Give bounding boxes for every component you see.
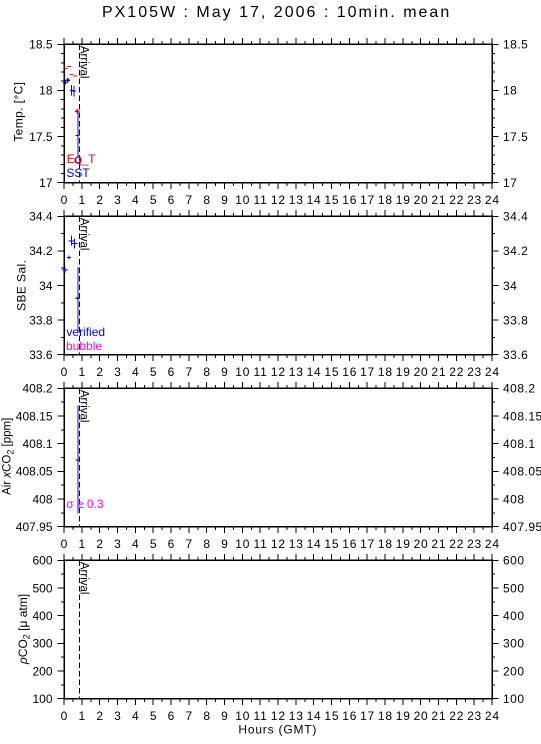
svg-text:Hours (GMT): Hours (GMT) bbox=[238, 723, 317, 737]
panel4-pco2 x ticks bottom bbox=[64, 699, 492, 706]
svg-text:23: 23 bbox=[467, 709, 482, 723]
svg-text:23: 23 bbox=[467, 193, 482, 207]
svg-text:18: 18 bbox=[378, 193, 393, 207]
svg-text:SST: SST bbox=[66, 166, 90, 180]
svg-text:6: 6 bbox=[168, 709, 175, 723]
panel2-sal y ticks left bbox=[58, 216, 65, 354]
svg-text:12: 12 bbox=[271, 709, 286, 723]
svg-text:20: 20 bbox=[414, 537, 429, 551]
panel3-xco2 y labels right bbox=[503, 382, 541, 534]
svg-text:8: 8 bbox=[203, 193, 210, 207]
svg-text:18: 18 bbox=[378, 365, 393, 379]
svg-text:24: 24 bbox=[485, 193, 500, 207]
p2 blue small plus bbox=[67, 256, 71, 260]
panel2-sal arrival dashed line bbox=[79, 216, 81, 354]
p1 blue SST plus markers small bbox=[63, 78, 70, 85]
svg-text:17: 17 bbox=[503, 176, 517, 190]
svg-text:Arrival: Arrival bbox=[78, 218, 90, 251]
svg-text:300: 300 bbox=[32, 637, 52, 651]
panel2-sal x ticks bottom bbox=[64, 355, 492, 362]
svg-text:100: 100 bbox=[32, 692, 52, 706]
panel1-temp y labels right bbox=[503, 38, 528, 190]
svg-text:15: 15 bbox=[324, 193, 339, 207]
panel4-pco2 frame bbox=[64, 560, 492, 698]
svg-text:18.5: 18.5 bbox=[29, 38, 53, 52]
svg-text:Arrival: Arrival bbox=[78, 46, 90, 79]
svg-text:22: 22 bbox=[449, 709, 464, 723]
panel1-temp x ticks top bbox=[64, 38, 492, 45]
svg-text:4: 4 bbox=[132, 709, 139, 723]
panel4-pco2 y labels right bbox=[503, 554, 525, 706]
svg-text:23: 23 bbox=[467, 537, 482, 551]
svg-text:20: 20 bbox=[414, 193, 429, 207]
panel3-xco2 x ticks top bbox=[64, 382, 492, 389]
svg-text:3: 3 bbox=[114, 365, 121, 379]
svg-text:19: 19 bbox=[396, 193, 411, 207]
svg-text:21: 21 bbox=[431, 709, 446, 723]
svg-text:σ ≥ 0.3: σ ≥ 0.3 bbox=[66, 497, 104, 511]
p1 blue circle marker bbox=[75, 157, 81, 163]
svg-text:2: 2 bbox=[96, 709, 103, 723]
svg-text:2: 2 bbox=[96, 365, 103, 379]
p1 blue plus pair H bbox=[70, 85, 76, 96]
svg-text:10: 10 bbox=[235, 193, 250, 207]
svg-text:9: 9 bbox=[221, 537, 228, 551]
panel3-xco2 y ticks left bbox=[58, 388, 65, 526]
svg-text:3: 3 bbox=[114, 193, 121, 207]
panel4-pco2 x labels bbox=[61, 709, 500, 723]
svg-text:17: 17 bbox=[360, 193, 375, 207]
panel4-pco2 arrival dashed line bbox=[79, 560, 81, 698]
svg-text:3: 3 bbox=[114, 709, 121, 723]
svg-text:10: 10 bbox=[235, 365, 250, 379]
svg-text:34.4: 34.4 bbox=[29, 210, 53, 224]
svg-text:300: 300 bbox=[503, 637, 525, 651]
svg-text:14: 14 bbox=[307, 193, 322, 207]
svg-text:34: 34 bbox=[503, 279, 517, 293]
svg-text:7: 7 bbox=[185, 709, 192, 723]
svg-text:17.5: 17.5 bbox=[29, 130, 53, 144]
svg-text:22: 22 bbox=[449, 537, 464, 551]
svg-text:Eq_T: Eq_T bbox=[67, 152, 96, 166]
svg-text:14: 14 bbox=[307, 709, 322, 723]
svg-text:13: 13 bbox=[289, 709, 304, 723]
svg-text:16: 16 bbox=[342, 709, 357, 723]
svg-text:24: 24 bbox=[485, 537, 500, 551]
panel1-temp frame bbox=[64, 44, 492, 182]
panel4-pco2 y ticks left bbox=[58, 560, 65, 698]
svg-text:17: 17 bbox=[360, 365, 375, 379]
svg-text:400: 400 bbox=[32, 609, 52, 623]
svg-text:8: 8 bbox=[203, 365, 210, 379]
svg-text:408.1: 408.1 bbox=[503, 437, 536, 451]
svg-text:20: 20 bbox=[414, 709, 429, 723]
svg-text:408.1: 408.1 bbox=[22, 437, 52, 451]
svg-text:11: 11 bbox=[254, 709, 268, 723]
p1 red plus at line top bbox=[75, 109, 80, 113]
svg-text:21: 21 bbox=[431, 193, 446, 207]
svg-text:11: 11 bbox=[254, 193, 268, 207]
svg-text:11: 11 bbox=[254, 365, 268, 379]
svg-text:13: 13 bbox=[289, 365, 304, 379]
svg-text:408: 408 bbox=[503, 492, 525, 506]
svg-text:18: 18 bbox=[39, 84, 53, 98]
svg-text:6: 6 bbox=[168, 193, 175, 207]
panel2-sal frame bbox=[64, 216, 492, 354]
svg-text:12: 12 bbox=[271, 537, 286, 551]
panel2-sal x ticks top bbox=[64, 210, 492, 217]
svg-text:10: 10 bbox=[235, 537, 250, 551]
panel3-xco2 arrival dashed line bbox=[79, 388, 81, 526]
svg-text:408.05: 408.05 bbox=[503, 465, 541, 479]
svg-text:7: 7 bbox=[185, 365, 192, 379]
svg-text:4: 4 bbox=[132, 537, 139, 551]
svg-text:14: 14 bbox=[307, 537, 322, 551]
svg-text:33.8: 33.8 bbox=[503, 313, 528, 327]
svg-text:407.95: 407.95 bbox=[16, 520, 53, 534]
svg-text:2: 2 bbox=[96, 193, 103, 207]
svg-text:34.4: 34.4 bbox=[503, 210, 528, 224]
svg-text:bubble: bubble bbox=[66, 339, 102, 353]
svg-text:5: 5 bbox=[150, 193, 157, 207]
svg-text:18.5: 18.5 bbox=[503, 38, 528, 52]
panel3-xco2 y ticks right bbox=[492, 388, 499, 526]
svg-text:17.5: 17.5 bbox=[503, 130, 528, 144]
p2 blue vertical range line bbox=[75, 267, 79, 331]
panel3-xco2 x ticks bottom bbox=[64, 527, 492, 534]
svg-text:18: 18 bbox=[378, 709, 393, 723]
svg-text:33.8: 33.8 bbox=[29, 313, 53, 327]
svg-text:100: 100 bbox=[503, 692, 525, 706]
svg-text:1: 1 bbox=[78, 537, 85, 551]
p1 red EqT trace segment a bbox=[64, 66, 71, 68]
panel1-temp y ticks left bbox=[58, 44, 65, 182]
svg-text:24: 24 bbox=[485, 709, 500, 723]
svg-text:18: 18 bbox=[503, 84, 517, 98]
svg-text:15: 15 bbox=[324, 365, 339, 379]
svg-text:0: 0 bbox=[61, 537, 68, 551]
panel2-sal y labels right bbox=[503, 210, 528, 362]
p1 blue vertical range line bbox=[75, 111, 79, 157]
svg-text:17: 17 bbox=[360, 709, 375, 723]
svg-text:3: 3 bbox=[114, 537, 121, 551]
svg-text:6: 6 bbox=[168, 365, 175, 379]
svg-text:9: 9 bbox=[221, 365, 228, 379]
svg-text:12: 12 bbox=[271, 193, 286, 207]
p3 blue vertical range line bbox=[75, 405, 79, 513]
svg-text:12: 12 bbox=[271, 365, 286, 379]
svg-text:34.2: 34.2 bbox=[503, 244, 528, 258]
svg-text:16: 16 bbox=[342, 365, 357, 379]
svg-text:1: 1 bbox=[78, 365, 85, 379]
svg-text:200: 200 bbox=[32, 664, 52, 678]
svg-text:1: 1 bbox=[78, 193, 85, 207]
svg-text:34: 34 bbox=[39, 279, 53, 293]
svg-text:600: 600 bbox=[503, 554, 525, 568]
svg-text:13: 13 bbox=[289, 537, 304, 551]
svg-text:4: 4 bbox=[132, 365, 139, 379]
panel4-pco2 x ticks top bbox=[64, 554, 492, 561]
svg-text:22: 22 bbox=[449, 193, 464, 207]
svg-text:23: 23 bbox=[467, 365, 482, 379]
svg-text:5: 5 bbox=[150, 365, 157, 379]
svg-text:18: 18 bbox=[378, 537, 393, 551]
svg-text:14: 14 bbox=[307, 365, 322, 379]
svg-text:Arrival: Arrival bbox=[78, 562, 90, 595]
svg-text:5: 5 bbox=[150, 709, 157, 723]
panel4-pco2 y labels left bbox=[32, 554, 52, 706]
panel2-sal y ticks right bbox=[492, 216, 499, 354]
svg-text:verified: verified bbox=[66, 325, 105, 339]
svg-text:16: 16 bbox=[342, 537, 357, 551]
svg-text:13: 13 bbox=[289, 193, 304, 207]
svg-text:22: 22 bbox=[449, 365, 464, 379]
svg-text:1: 1 bbox=[78, 709, 85, 723]
svg-text:19: 19 bbox=[396, 365, 411, 379]
svg-text:34.2: 34.2 bbox=[29, 244, 53, 258]
svg-text:7: 7 bbox=[185, 537, 192, 551]
svg-text:16: 16 bbox=[342, 193, 357, 207]
svg-text:33.6: 33.6 bbox=[503, 348, 528, 362]
panel3-xco2 x labels bbox=[61, 537, 500, 551]
svg-text:Temp. [°C]: Temp. [°C] bbox=[12, 82, 26, 142]
svg-text:Air xCO2 [ppm]: Air xCO2 [ppm] bbox=[2, 418, 16, 495]
panel4-pco2 y ticks right bbox=[492, 560, 499, 698]
svg-text:500: 500 bbox=[32, 581, 52, 595]
svg-text:408.15: 408.15 bbox=[503, 409, 541, 423]
svg-text:20: 20 bbox=[414, 365, 429, 379]
svg-text:7: 7 bbox=[185, 193, 192, 207]
svg-text:11: 11 bbox=[254, 537, 268, 551]
svg-text:400: 400 bbox=[503, 609, 525, 623]
svg-text:408.2: 408.2 bbox=[503, 382, 536, 396]
svg-text:0: 0 bbox=[61, 365, 68, 379]
svg-text:PX105W : May 17, 2006 : 10min.: PX105W : May 17, 2006 : 10min. mean bbox=[102, 4, 451, 21]
svg-text:500: 500 bbox=[503, 581, 525, 595]
svg-text:2: 2 bbox=[96, 537, 103, 551]
panel2-sal x labels bbox=[61, 365, 500, 379]
panel1-temp arrival dashed line bbox=[79, 44, 81, 182]
svg-text:407.95: 407.95 bbox=[503, 520, 541, 534]
svg-text:15: 15 bbox=[324, 709, 339, 723]
svg-text:15: 15 bbox=[324, 537, 339, 551]
svg-text:17: 17 bbox=[360, 537, 375, 551]
p1 red EqT trace segment b bbox=[70, 74, 77, 76]
svg-text:0: 0 bbox=[61, 193, 68, 207]
svg-text:4: 4 bbox=[132, 193, 139, 207]
panel1-temp x labels bbox=[61, 193, 500, 207]
svg-text:0: 0 bbox=[61, 709, 68, 723]
p2 blue plus at axis bbox=[62, 267, 68, 273]
svg-text:21: 21 bbox=[431, 365, 446, 379]
svg-text:200: 200 bbox=[503, 664, 525, 678]
svg-text:33.6: 33.6 bbox=[29, 348, 53, 362]
svg-text:408: 408 bbox=[32, 492, 52, 506]
svg-text:6: 6 bbox=[168, 537, 175, 551]
svg-text:24: 24 bbox=[485, 365, 500, 379]
svg-text:600: 600 bbox=[32, 554, 52, 568]
svg-text:408.2: 408.2 bbox=[22, 382, 52, 396]
svg-text:408.15: 408.15 bbox=[16, 409, 53, 423]
svg-text:Arrival: Arrival bbox=[78, 390, 90, 423]
panel3-xco2 y labels left bbox=[16, 382, 53, 534]
panel1-temp x ticks bottom bbox=[64, 183, 492, 190]
panel2-sal y labels left bbox=[29, 210, 53, 362]
svg-text:10: 10 bbox=[235, 709, 250, 723]
svg-text:9: 9 bbox=[221, 709, 228, 723]
svg-text:9: 9 bbox=[221, 193, 228, 207]
svg-text:21: 21 bbox=[431, 537, 446, 551]
svg-text:19: 19 bbox=[396, 537, 411, 551]
p2 blue plus pair bbox=[69, 235, 78, 248]
panel3-xco2 frame bbox=[64, 388, 492, 526]
panel1-temp y ticks right bbox=[492, 44, 499, 182]
svg-text:8: 8 bbox=[203, 709, 210, 723]
svg-text:5: 5 bbox=[150, 537, 157, 551]
svg-text:19: 19 bbox=[396, 709, 411, 723]
svg-text:ρCO2 [μ atm]: ρCO2 [μ atm] bbox=[16, 594, 32, 665]
svg-text:SBE Sal.: SBE Sal. bbox=[15, 260, 29, 311]
svg-text:408.05: 408.05 bbox=[16, 465, 53, 479]
panel1-temp y labels left bbox=[29, 38, 53, 190]
svg-text:8: 8 bbox=[203, 537, 210, 551]
svg-text:17: 17 bbox=[39, 176, 53, 190]
